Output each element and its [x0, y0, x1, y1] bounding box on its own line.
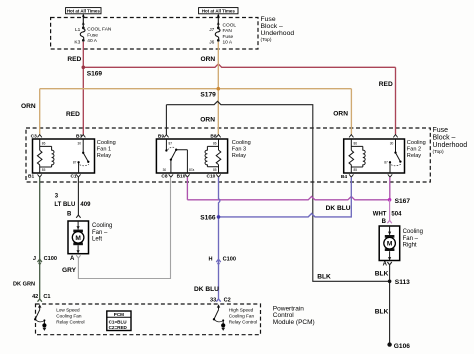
svg-text:Relay: Relay — [97, 153, 112, 159]
svg-text:C1=BLU: C1=BLU — [109, 319, 128, 324]
svg-text:C2=RED: C2=RED — [109, 325, 128, 330]
svg-text:High Speed: High Speed — [229, 308, 254, 313]
svg-text:ORN: ORN — [201, 56, 216, 63]
svg-text:WHT: WHT — [373, 212, 387, 218]
svg-text:87: 87 — [169, 141, 173, 145]
svg-text:85: 85 — [354, 168, 358, 172]
svg-text:S167: S167 — [395, 198, 411, 205]
svg-text:85: 85 — [42, 168, 46, 172]
svg-text:B: B — [67, 211, 72, 217]
svg-text:86: 86 — [213, 141, 217, 145]
svg-text:Relay Control: Relay Control — [56, 320, 84, 325]
svg-text:3: 3 — [55, 194, 59, 200]
svg-text:H: H — [209, 256, 213, 262]
svg-text:DK BLU: DK BLU — [194, 286, 219, 293]
svg-text:Fan –: Fan – — [92, 230, 108, 236]
svg-text:Fuse: Fuse — [87, 32, 98, 38]
svg-text:C10: C10 — [207, 174, 216, 180]
svg-text:Fuse: Fuse — [261, 16, 276, 23]
svg-text:Relay: Relay — [407, 153, 422, 159]
svg-text:Left: Left — [92, 237, 102, 243]
svg-text:Fuse: Fuse — [223, 34, 234, 40]
svg-text:(Top): (Top) — [261, 37, 272, 43]
svg-text:S179: S179 — [200, 91, 216, 98]
svg-text:Block –: Block – — [433, 135, 456, 142]
svg-text:504: 504 — [391, 212, 402, 218]
svg-text:C100: C100 — [44, 256, 57, 262]
svg-text:ORN: ORN — [21, 103, 36, 110]
svg-text:DK BLU: DK BLU — [326, 205, 351, 212]
svg-text:C2: C2 — [224, 297, 231, 303]
svg-text:Right: Right — [403, 243, 417, 249]
svg-text:Hot at All Times: Hot at All Times — [202, 8, 235, 13]
svg-text:40 A: 40 A — [87, 38, 97, 44]
svg-text:K3: K3 — [74, 39, 80, 45]
svg-text:87: 87 — [73, 160, 77, 164]
svg-text:BLK: BLK — [375, 270, 389, 277]
svg-text:S169: S169 — [87, 71, 103, 78]
svg-text:S166: S166 — [200, 214, 216, 221]
svg-text:C3: C3 — [31, 134, 37, 140]
svg-text:B4: B4 — [341, 174, 347, 180]
svg-text:J: J — [33, 256, 36, 262]
svg-text:86: 86 — [42, 141, 46, 145]
svg-text:Cooling: Cooling — [232, 140, 251, 146]
svg-text:Cooling Fan: Cooling Fan — [229, 314, 255, 319]
svg-text:B8: B8 — [210, 134, 216, 140]
svg-text:Hot at All Times: Hot at All Times — [67, 8, 100, 13]
svg-text:COOL FAN: COOL FAN — [87, 27, 112, 33]
svg-text:C100: C100 — [223, 256, 236, 262]
svg-text:DK GRN: DK GRN — [13, 281, 35, 287]
svg-text:LT BLU: LT BLU — [54, 202, 75, 208]
svg-text:33: 33 — [210, 297, 216, 303]
svg-text:C1: C1 — [43, 294, 50, 300]
svg-text:G106: G106 — [394, 343, 410, 350]
svg-text:10 A: 10 A — [223, 39, 233, 45]
svg-text:87a: 87a — [189, 168, 195, 172]
svg-text:RED: RED — [67, 56, 81, 63]
svg-text:Cooling Fan: Cooling Fan — [56, 314, 82, 319]
svg-text:FAN: FAN — [223, 28, 233, 34]
svg-text:J7: J7 — [209, 27, 214, 33]
svg-text:Block –: Block – — [261, 23, 284, 30]
svg-text:J6: J6 — [209, 39, 214, 45]
svg-text:Module (PCM): Module (PCM) — [273, 319, 315, 326]
svg-text:A: A — [383, 261, 388, 267]
svg-text:BLK: BLK — [317, 274, 331, 281]
svg-text:Relay Control: Relay Control — [229, 320, 257, 325]
svg-text:ORN: ORN — [333, 111, 348, 118]
svg-text:M: M — [387, 241, 393, 248]
svg-text:87: 87 — [384, 160, 388, 164]
svg-text:Cooling: Cooling — [403, 229, 423, 235]
svg-text:B9: B9 — [158, 134, 164, 140]
svg-text:M: M — [75, 235, 81, 242]
svg-text:BLK: BLK — [375, 308, 389, 315]
svg-text:30: 30 — [390, 141, 394, 145]
svg-text:Cooling: Cooling — [92, 223, 112, 229]
svg-text:C8: C8 — [161, 174, 167, 180]
svg-text:30: 30 — [77, 141, 81, 145]
svg-text:B10: B10 — [177, 174, 186, 180]
svg-text:Underhood: Underhood — [433, 142, 468, 149]
svg-text:RED: RED — [379, 81, 393, 88]
svg-text:Fuse: Fuse — [433, 127, 449, 134]
svg-text:Fan 2: Fan 2 — [407, 146, 421, 152]
svg-text:30: 30 — [163, 168, 167, 172]
svg-text:GRY: GRY — [62, 267, 77, 274]
svg-text:409: 409 — [80, 202, 91, 208]
svg-text:Relay: Relay — [232, 153, 247, 159]
svg-text:S113: S113 — [395, 279, 410, 286]
svg-text:Fan 1: Fan 1 — [97, 146, 111, 152]
svg-text:86: 86 — [354, 141, 358, 145]
svg-text:C1: C1 — [70, 174, 76, 180]
svg-text:COOL: COOL — [223, 23, 237, 29]
svg-text:42: 42 — [32, 294, 38, 300]
svg-text:B: B — [382, 219, 387, 225]
svg-text:RED: RED — [66, 111, 80, 118]
svg-text:Fan –: Fan – — [403, 236, 419, 242]
svg-text:Cooling: Cooling — [407, 140, 426, 146]
svg-text:L1: L1 — [75, 27, 81, 33]
svg-text:Underhood: Underhood — [261, 30, 295, 37]
svg-text:B1: B1 — [28, 174, 34, 180]
svg-text:Low Speed: Low Speed — [56, 308, 80, 313]
svg-text:PCM: PCM — [114, 312, 124, 317]
svg-text:85: 85 — [213, 168, 217, 172]
svg-text:ORN: ORN — [200, 116, 215, 123]
svg-text:Fan 3: Fan 3 — [232, 146, 246, 152]
svg-text:Cooling: Cooling — [97, 140, 116, 146]
svg-text:(Top): (Top) — [433, 149, 445, 155]
svg-text:A: A — [70, 256, 75, 262]
